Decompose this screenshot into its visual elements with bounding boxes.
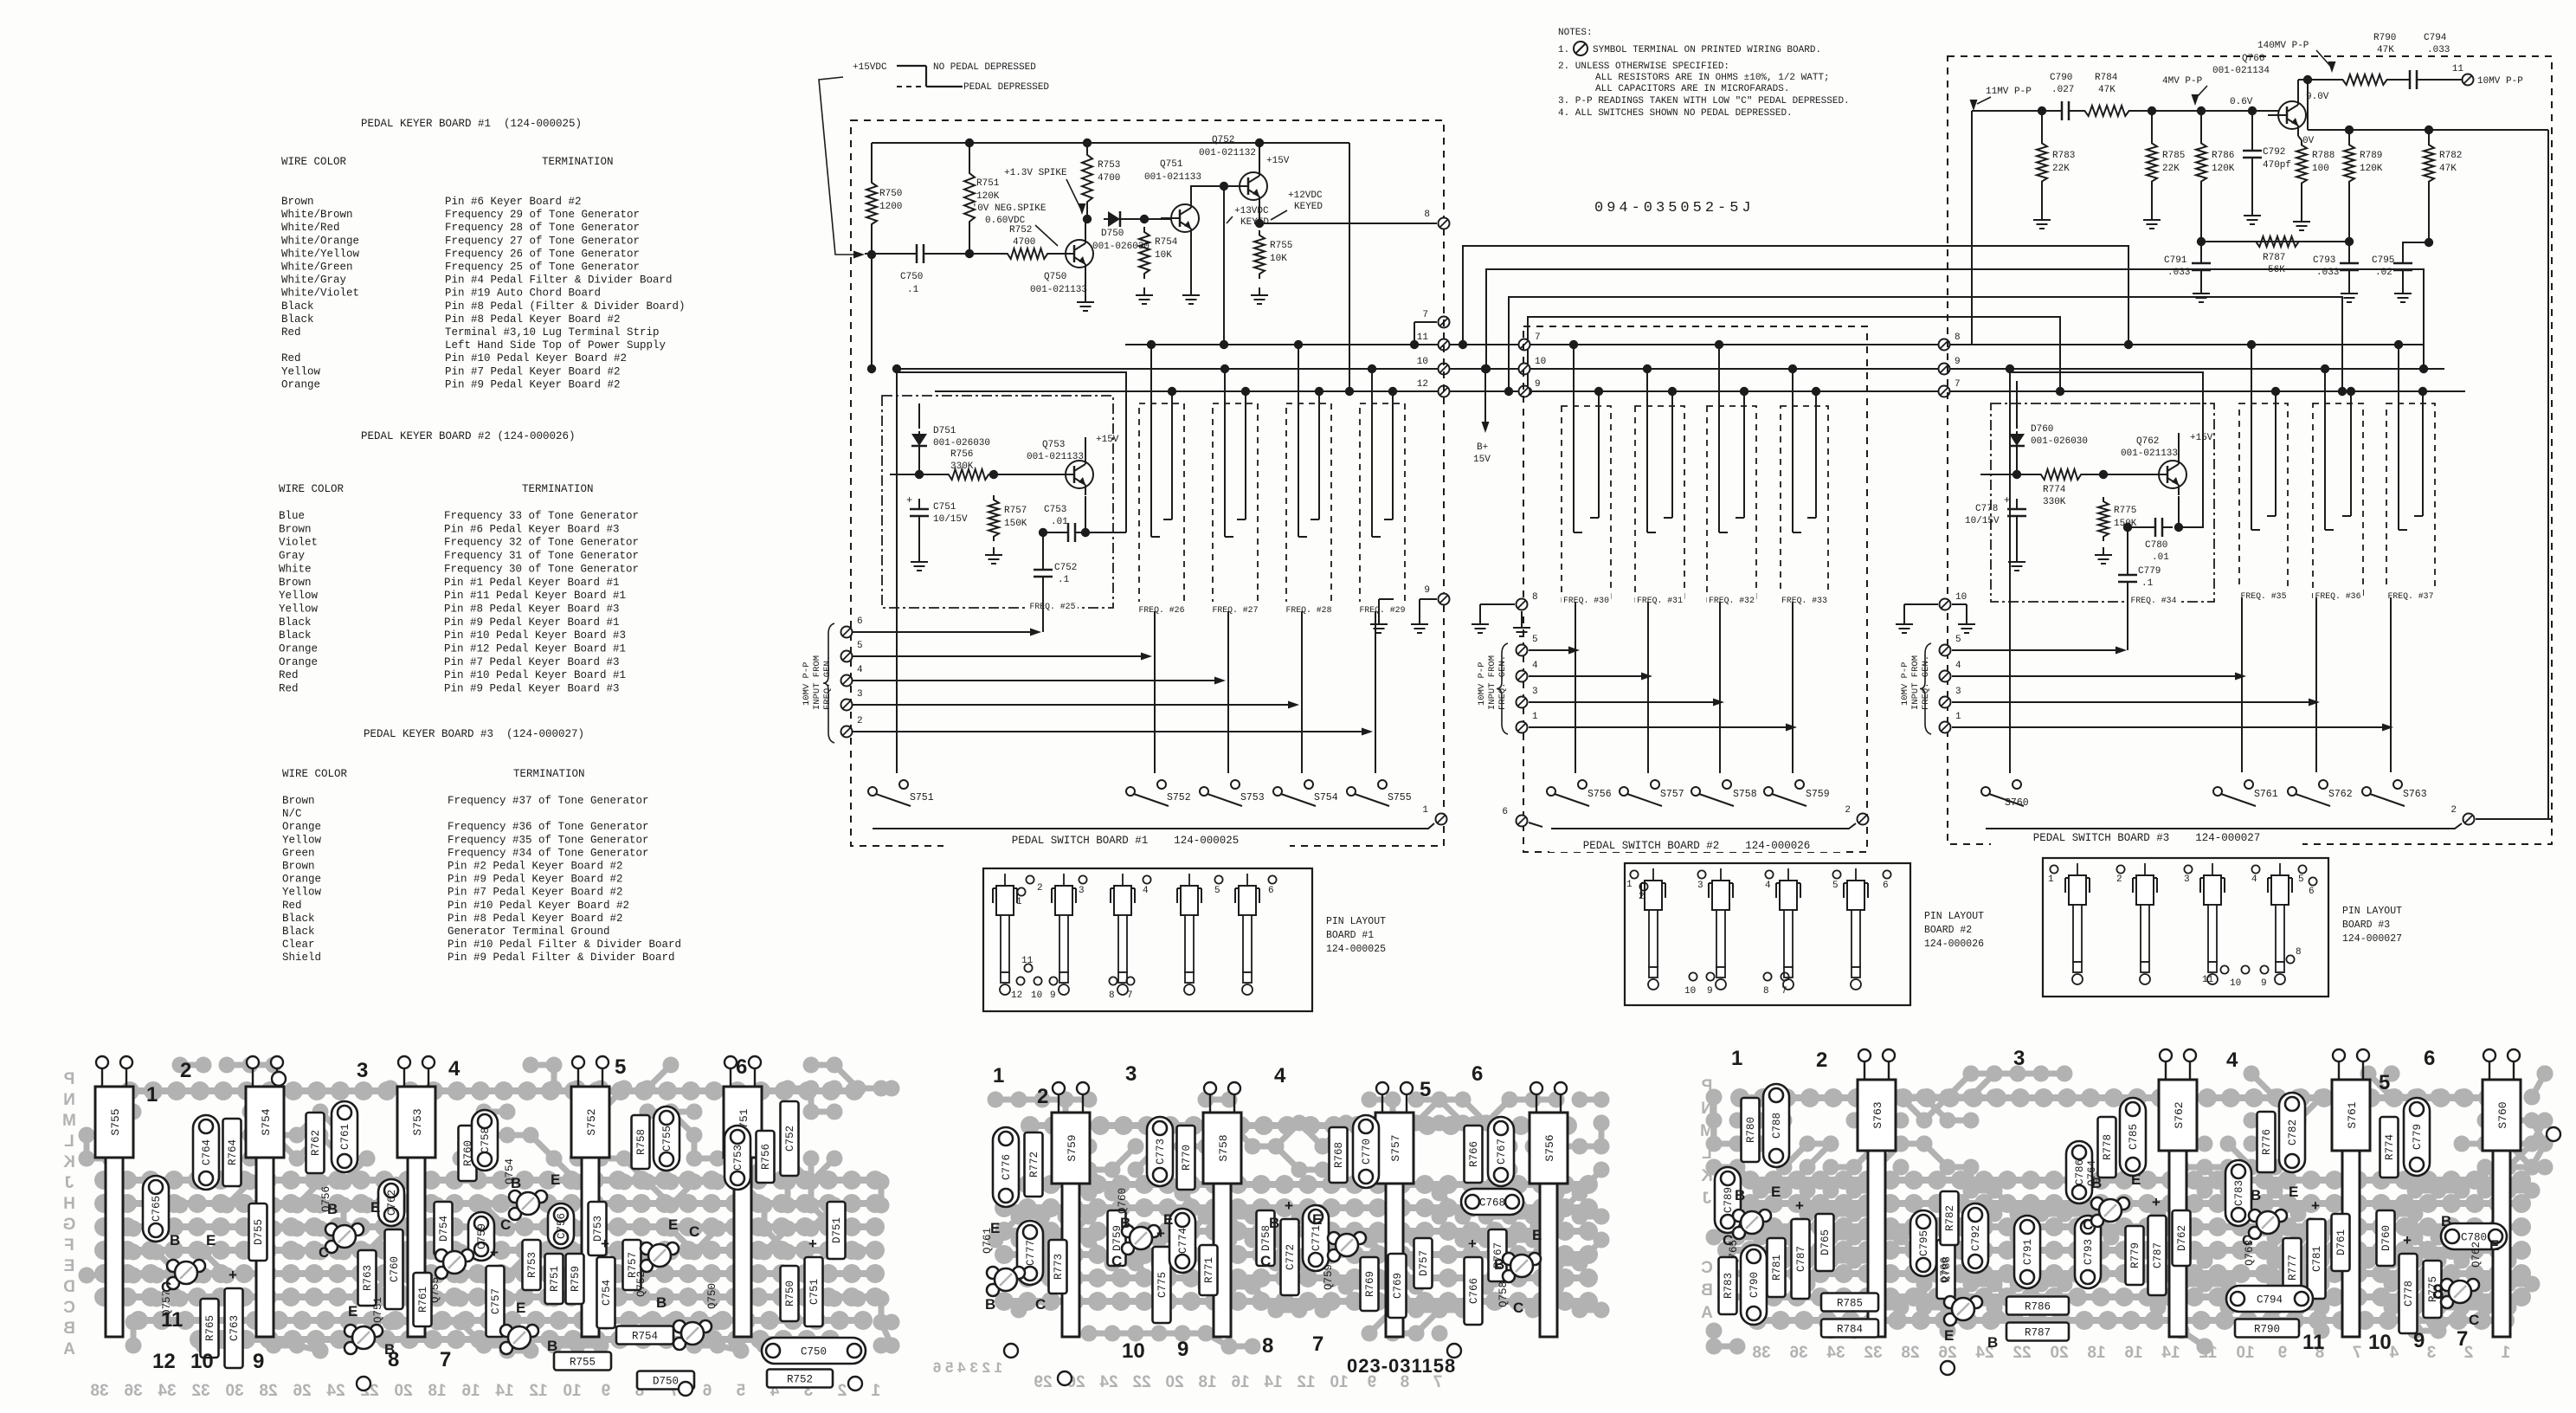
PCB1 part D753: [589, 1202, 607, 1255]
svg-text:R753: R753: [526, 1252, 538, 1278]
svg-text:C759: C759: [476, 1223, 488, 1249]
terminal 11 board1: [1439, 339, 1450, 351]
svg-text:124-000025: 124-000025: [1326, 944, 1386, 955]
svg-text:S759: S759: [1066, 1134, 1079, 1161]
svg-text:.1: .1: [1058, 575, 1070, 585]
PCB1 part R760: [459, 1126, 477, 1181]
svg-text:D: D: [63, 1278, 75, 1296]
svg-text:C793: C793: [2083, 1239, 2095, 1265]
svg-text:10: 10: [1122, 1339, 1145, 1363]
svg-text:Orange: Orange: [282, 821, 321, 833]
PCB2 open pads: [1004, 1344, 1018, 1358]
PCB1 part Q756: [325, 1223, 338, 1236]
terminal 2 board3: [2463, 814, 2475, 825]
svg-text:BOARD #2: BOARD #2: [1924, 925, 1972, 936]
svg-text:38: 38: [90, 1382, 108, 1400]
PCB1 part D750: [637, 1371, 694, 1390]
svg-text:.01: .01: [1051, 517, 1068, 527]
svg-text:10: 10: [1330, 1373, 1348, 1391]
svg-text:E: E: [668, 1216, 678, 1233]
svg-text:3: 3: [2013, 1047, 2025, 1070]
pin layout board #2: [1625, 863, 1910, 1005]
PCB1 part Q752lbl: [641, 1242, 653, 1255]
PCB3 switch S761: [2332, 1080, 2370, 1151]
svg-text:Q759: Q759: [1323, 1264, 1335, 1290]
svg-text:J: J: [65, 1174, 74, 1192]
svg-text:4MV P-P: 4MV P-P: [2162, 76, 2203, 87]
PCB3 part R788: [1937, 1240, 1955, 1299]
svg-text:10: 10: [2230, 978, 2241, 989]
PCB1 part Q750: [673, 1320, 686, 1332]
svg-text:C: C: [1111, 1253, 1122, 1269]
svg-text:K: K: [1701, 1167, 1713, 1185]
svg-text:-'0V NEG.SPIKE: -'0V NEG.SPIKE: [966, 203, 1046, 214]
svg-text:3: 3: [1955, 687, 1961, 697]
svg-text:R790: R790: [2254, 1324, 2280, 1336]
svg-text:BOARD #1: BOARD #1: [1326, 930, 1374, 941]
PCB3 part R785: [1821, 1294, 1878, 1312]
svg-text:FREQ. GEN.: FREQ. GEN.: [822, 655, 833, 710]
svg-text:5: 5: [857, 641, 863, 651]
frequency divider box FREQ. #30: [1562, 406, 1611, 602]
PCB3 part D761: [2332, 1214, 2350, 1271]
svg-text:Brown: Brown: [279, 523, 312, 535]
svg-text:10MV P-P: 10MV P-P: [1900, 662, 1910, 706]
svg-text:R751: R751: [976, 178, 1000, 189]
svg-text:Pin #10 Pedal Keyer Board #2: Pin #10 Pedal Keyer Board #2: [448, 900, 629, 912]
svg-text:R784: R784: [1837, 1324, 1863, 1336]
PCB1 part Q754: [509, 1190, 521, 1203]
svg-text:R776: R776: [2261, 1129, 2273, 1155]
switch S753: [1200, 787, 1208, 796]
terminal 11 output: [2463, 74, 2474, 86]
svg-text:.033: .033: [2427, 45, 2450, 55]
svg-text:R752: R752: [787, 1374, 813, 1386]
svg-text:Yellow: Yellow: [282, 834, 322, 846]
svg-text:R752: R752: [1009, 225, 1032, 235]
svg-text:3: 3: [1532, 687, 1538, 697]
switch S763: [2362, 787, 2371, 796]
PCB1 switch S751: [724, 1087, 762, 1158]
svg-text:6: 6: [2424, 1047, 2435, 1070]
terminal 6 board2: [1517, 816, 1528, 827]
PCB3 part C789: [1715, 1167, 1741, 1233]
svg-text:8: 8: [1955, 332, 1961, 343]
svg-text:S761: S761: [2346, 1101, 2359, 1128]
transistor Q752: [1240, 172, 1267, 200]
PCB3 part C790: [1741, 1245, 1767, 1325]
PCB3 part R784: [1821, 1319, 1878, 1338]
svg-text:Frequency #35 of Tone Generato: Frequency #35 of Tone Generator: [448, 834, 649, 846]
svg-text:Pin #4 Pedal Filter & Divider: Pin #4 Pedal Filter & Divider Board: [445, 274, 673, 287]
PCB layout board 1 copper traces: [741, 1249, 764, 1255]
svg-text:Q750: Q750: [1044, 272, 1066, 282]
svg-text:C768: C768: [1479, 1197, 1505, 1210]
svg-text:3: 3: [857, 689, 863, 700]
wire input 6 arrow: [853, 631, 1032, 633]
svg-text:Frequency 30 of Tone Generator: Frequency 30 of Tone Generator: [444, 563, 639, 575]
PCB3 part R777: [2283, 1238, 2302, 1297]
svg-text:+15V: +15V: [1096, 435, 1119, 445]
capacitor C790: [2051, 110, 2062, 112]
resistor R784: [2079, 106, 2135, 116]
svg-text:36: 36: [1789, 1344, 1807, 1362]
svg-text:R787: R787: [2025, 1327, 2051, 1339]
svg-text:10: 10: [1031, 990, 1042, 1001]
svg-text:WIRE COLOR: WIRE COLOR: [279, 483, 345, 495]
terminal 8 board1: [1439, 218, 1450, 229]
svg-text:C781: C781: [2311, 1246, 2323, 1272]
svg-text:C: C: [1260, 1253, 1271, 1269]
svg-text:C: C: [1701, 1259, 1713, 1277]
PCB2 part Q761: [987, 1267, 999, 1279]
svg-text:BOARD #3: BOARD #3: [2342, 919, 2390, 931]
svg-text:R765: R765: [204, 1315, 216, 1341]
svg-text:470pf: 470pf: [2263, 160, 2291, 171]
svg-text:2: 2: [1639, 892, 1645, 902]
svg-text:Pin #10 Pedal Keyer Board #3: Pin #10 Pedal Keyer Board #3: [444, 629, 626, 642]
freq 34 keyer dash-dot box: [1991, 403, 2214, 602]
wire bottom bus board1: [873, 823, 1434, 829]
svg-text:001-021133: 001-021133: [1144, 172, 1201, 183]
terminal 12 board1: [1439, 386, 1450, 397]
pedal switch board 2 dashed outline: [1523, 326, 1867, 852]
PCB1 part R762: [306, 1113, 325, 1173]
PCB3 mirrored ruler numbers: [1752, 1344, 1770, 1362]
terminal 1 board1: [1436, 814, 1447, 825]
svg-text:9.0V: 9.0V: [2306, 92, 2329, 102]
PCB1 part C765: [143, 1176, 169, 1242]
svg-text:Yellow: Yellow: [282, 887, 322, 899]
PCB3 part Q763: [2249, 1210, 2261, 1222]
svg-text:12: 12: [152, 1350, 176, 1373]
wire Q752 emitter node: [1259, 207, 1260, 223]
svg-text:4. ALL SWITCHES SHOWN NO PEDAL: 4. ALL SWITCHES SHOWN NO PEDAL DEPRESSED…: [1558, 108, 1793, 119]
svg-text:B: B: [63, 1319, 75, 1338]
svg-text:4: 4: [2251, 874, 2257, 885]
svg-text:R755: R755: [570, 1357, 596, 1369]
svg-text:R788: R788: [2312, 151, 2334, 161]
svg-text:22: 22: [1132, 1373, 1150, 1391]
PCB3 part R774: [2380, 1117, 2399, 1177]
svg-text:Brown: Brown: [281, 196, 314, 208]
svg-text:C765: C765: [151, 1196, 163, 1222]
svg-text:R755: R755: [1270, 241, 1292, 251]
svg-text:Generator Terminal Ground: Generator Terminal Ground: [448, 926, 610, 938]
svg-text:Pin #19 Auto Chord Board: Pin #19 Auto Chord Board: [445, 287, 601, 300]
svg-text:.01: .01: [2152, 552, 2169, 563]
svg-text:6: 6: [1883, 881, 1889, 891]
PCB2 part R772: [1025, 1132, 1043, 1197]
wire Q750 collector to D750 node: [1085, 219, 1086, 233]
PCB1 part C752: [781, 1101, 799, 1176]
svg-text:S757: S757: [1660, 789, 1684, 800]
wire freq25 output to switch: [1085, 532, 1126, 533]
switch S761: [2213, 787, 2222, 796]
svg-text:.027: .027: [2051, 85, 2074, 95]
resistor R782: [2428, 130, 2430, 140]
svg-text:8: 8: [1109, 990, 1115, 1001]
svg-text:C791: C791: [2164, 255, 2187, 266]
svg-text:Red: Red: [282, 900, 302, 912]
svg-text:2: 2: [1845, 805, 1851, 816]
terminal 10 board2: [1519, 364, 1530, 375]
svg-text:10MV P-P: 10MV P-P: [1477, 662, 1487, 706]
diode D751: [918, 403, 920, 429]
PCB1 part D751: [828, 1202, 846, 1259]
terminal 10 board1: [1439, 364, 1450, 375]
resistor R786: [2197, 106, 2206, 115]
PCB1 part R753: [523, 1240, 541, 1290]
svg-text:D757: D757: [1418, 1250, 1430, 1276]
svg-text:.02: .02: [2375, 268, 2392, 278]
svg-text:24: 24: [1099, 1373, 1118, 1391]
svg-text:2: 2: [1037, 1085, 1048, 1108]
PCB1 mirrored ruler numbers: [90, 1382, 108, 1400]
frequency divider box FREQ. #26: [1139, 403, 1184, 611]
svg-text:Yellow: Yellow: [279, 590, 319, 602]
svg-text:D760: D760: [2380, 1225, 2392, 1251]
switch S760: [1981, 787, 1990, 796]
svg-text:+: +: [490, 1244, 499, 1261]
svg-text:9: 9: [602, 1382, 611, 1400]
svg-text:Orange: Orange: [281, 378, 320, 390]
pedal plug switch: [2144, 863, 2146, 875]
resistor R788 emitter: [2298, 136, 2302, 140]
terminal 9 board1 with ground: [1439, 594, 1450, 605]
svg-text:16: 16: [461, 1382, 480, 1400]
wire 13VDC keyed feed: [1223, 186, 1225, 345]
svg-text:4700: 4700: [1098, 173, 1120, 184]
svg-text:E: E: [370, 1199, 380, 1216]
frequency divider box FREQ. #32: [1707, 406, 1756, 602]
wire feedback line: [2308, 129, 2548, 131]
ground C751: [918, 526, 920, 554]
svg-text:0.6V: 0.6V: [2230, 97, 2253, 107]
svg-text:PEDAL KEYER BOARD #1 (124-000: PEDAL KEYER BOARD #1 (124-000025): [361, 118, 582, 130]
ground Q751 emitter: [1190, 239, 1192, 287]
PCB3 switch S760: [2483, 1080, 2521, 1151]
svg-text:8: 8: [2296, 947, 2302, 958]
svg-text:R782: R782: [1944, 1205, 1956, 1231]
PCB1 open pads: [272, 1072, 286, 1086]
svg-text:330K: 330K: [950, 461, 974, 472]
svg-text:B: B: [985, 1296, 995, 1313]
svg-text:1: 1: [1422, 805, 1428, 816]
svg-text:22K: 22K: [2162, 164, 2180, 174]
svg-text:White/Yellow: White/Yellow: [281, 248, 360, 260]
svg-text:11: 11: [1021, 956, 1034, 966]
capacitor C795: [2403, 242, 2429, 255]
svg-text:Black: Black: [281, 300, 314, 313]
svg-text:R759: R759: [570, 1266, 582, 1292]
svg-text:Brown: Brown: [282, 861, 315, 873]
svg-text:2: 2: [838, 1382, 847, 1400]
PCB1 part C759: [468, 1212, 494, 1261]
svg-text:H: H: [63, 1195, 75, 1213]
svg-text:C795: C795: [1918, 1230, 1930, 1256]
svg-text:R768: R768: [1333, 1142, 1345, 1168]
svg-text:11: 11: [161, 1308, 183, 1332]
svg-text:TERMINATION: TERMINATION: [513, 768, 585, 780]
svg-text:S753: S753: [411, 1108, 424, 1135]
svg-text:C769: C769: [1392, 1273, 1404, 1299]
svg-text:PEDAL DEPRESSED: PEDAL DEPRESSED: [963, 82, 1049, 93]
svg-text:10: 10: [1955, 592, 1967, 603]
svg-text:B: B: [384, 1341, 395, 1358]
svg-text:9: 9: [1424, 585, 1430, 596]
svg-text:20: 20: [2050, 1344, 2068, 1362]
svg-text:E: E: [551, 1171, 560, 1188]
svg-text:1: 1: [2501, 1344, 2510, 1362]
svg-text:C780: C780: [2145, 540, 2167, 551]
terminal 2 board2: [1858, 814, 1869, 825]
svg-text:White/Green: White/Green: [281, 261, 353, 274]
PCB layout board 2 copper traces: [1486, 1237, 1510, 1243]
svg-text:R774: R774: [2384, 1134, 2396, 1160]
PCB2 part R773: [1049, 1240, 1067, 1294]
svg-text:S757: S757: [1389, 1134, 1402, 1161]
PCB1 switch S754: [246, 1087, 284, 1158]
svg-text:FREQ. #32: FREQ. #32: [1709, 596, 1755, 605]
svg-text:Red: Red: [281, 326, 301, 339]
PCB1 switch S755: [95, 1087, 133, 1158]
svg-text:R770: R770: [1181, 1145, 1193, 1171]
terminal 9 board3 left: [1939, 364, 1950, 375]
svg-text:S753: S753: [1240, 792, 1265, 803]
terminal 7 board1: [1414, 321, 1437, 323]
PCB2 mirrored ruler numbers: [1034, 1373, 1052, 1391]
svg-text:C770: C770: [1361, 1139, 1373, 1165]
svg-text:FREQ. GEN.: FREQ. GEN.: [1497, 655, 1508, 710]
svg-text:White/Gray: White/Gray: [281, 274, 347, 287]
svg-text:6: 6: [1268, 886, 1274, 896]
svg-text:C767: C767: [1496, 1139, 1508, 1165]
PCB1 part R761: [414, 1273, 432, 1326]
resistor R783: [2037, 139, 2047, 186]
svg-text:+: +: [906, 494, 912, 506]
PCB1 part D755: [249, 1203, 267, 1261]
PCB3 part Q765: [1733, 1210, 1745, 1222]
pedal plug switch: [1787, 868, 1789, 881]
svg-text:29: 29: [1034, 1373, 1052, 1391]
PCB2 part C775: [1153, 1247, 1171, 1323]
terminal 8 board3 left: [1939, 339, 1950, 351]
B+ 15V supply arrow: [1484, 369, 1486, 426]
svg-text:D760: D760: [2031, 424, 2053, 435]
svg-text:4: 4: [2226, 1048, 2238, 1072]
svg-text:R756: R756: [950, 449, 973, 460]
svg-text:Pin #8 Pedal Keyer Board #3: Pin #8 Pedal Keyer Board #3: [444, 603, 620, 615]
diode D750: [1104, 218, 1108, 220]
svg-text:6: 6: [1502, 807, 1508, 817]
wire b3 input 1 arrow: [1952, 726, 2382, 728]
PCB3 part Q764: [2091, 1197, 2103, 1210]
PCB3 part R787: [2006, 1323, 2069, 1341]
wire R786 bottom feedback node: [2200, 186, 2202, 242]
svg-text:15V: 15V: [1473, 455, 1491, 465]
svg-text:C795: C795: [2372, 255, 2394, 266]
svg-text:1: 1: [2048, 874, 2054, 885]
svg-text:Q758: Q758: [1497, 1281, 1510, 1307]
svg-text:Q766: Q766: [2242, 54, 2264, 64]
PCB3 part C782: [2279, 1093, 2305, 1172]
pin layout board #3: [2043, 858, 2328, 997]
svg-text:R787: R787: [2263, 253, 2285, 263]
svg-text:+1.3V SPIKE: +1.3V SPIKE: [1004, 168, 1067, 178]
svg-text:5: 5: [615, 1055, 626, 1079]
svg-text:C777: C777: [1025, 1240, 1037, 1266]
svg-text:47K: 47K: [2377, 45, 2394, 55]
svg-text:C791: C791: [2022, 1239, 2034, 1265]
svg-text:B+: B+: [1477, 442, 1488, 453]
wire bus line 10-10 y426: [897, 368, 1941, 370]
capacitor C751 electrolytic: [918, 499, 920, 509]
svg-text:3: 3: [2184, 874, 2190, 885]
svg-text:B: B: [2091, 1175, 2102, 1191]
svg-text:7: 7: [1127, 990, 1133, 1001]
PCB1 part C757: [486, 1266, 505, 1337]
resistor R750: [871, 143, 873, 177]
svg-text:4: 4: [1955, 661, 1961, 671]
svg-text:2: 2: [180, 1059, 191, 1082]
PCB2 part R768: [1330, 1127, 1348, 1183]
frequency divider box FREQ. #27: [1213, 403, 1258, 611]
svg-text:S763: S763: [2403, 789, 2427, 800]
svg-text:Orange: Orange: [279, 656, 318, 668]
svg-text:C773: C773: [1155, 1139, 1167, 1165]
svg-text:S752: S752: [585, 1108, 598, 1135]
svg-text:C753: C753: [732, 1145, 744, 1171]
switch S754: [1273, 787, 1282, 796]
svg-text:10/15V: 10/15V: [1965, 516, 2000, 526]
svg-text:Left Hand Side Top of Power Su: Left Hand Side Top of Power Supply: [445, 339, 667, 352]
svg-text:S755: S755: [109, 1108, 122, 1135]
svg-text:C789: C789: [1723, 1187, 1735, 1213]
svg-text:Pin #8 Pedal (Filter & Divider: Pin #8 Pedal (Filter & Divider Board): [445, 300, 686, 313]
svg-text:R754: R754: [632, 1331, 658, 1343]
PCB2 part Q758: [1503, 1253, 1515, 1265]
svg-text:Black: Black: [282, 913, 315, 925]
svg-text:14: 14: [2161, 1344, 2180, 1362]
svg-text:1 2 3 4 5 6: 1 2 3 4 5 6: [933, 1359, 1002, 1376]
svg-text:Q752: Q752: [1212, 135, 1234, 145]
svg-text:Clear: Clear: [282, 939, 315, 951]
PCB1 part C761: [332, 1101, 357, 1172]
PCB3 part R781: [1768, 1238, 1786, 1297]
svg-text:J: J: [1703, 1190, 1712, 1208]
svg-text:47K: 47K: [2439, 164, 2457, 174]
svg-text:Q760: Q760: [1117, 1188, 1129, 1214]
PCB3 part C795: [1910, 1210, 1936, 1276]
svg-text:C: C: [1035, 1296, 1046, 1313]
svg-text:FREQ. #37: FREQ. #37: [2388, 591, 2434, 601]
PCB1 part C750: [762, 1338, 866, 1364]
svg-text:S761: S761: [2254, 789, 2278, 800]
svg-text:E: E: [516, 1300, 525, 1316]
svg-text:Q762: Q762: [2136, 436, 2159, 447]
svg-text:C: C: [1513, 1300, 1523, 1316]
svg-text:12: 12: [1417, 379, 1428, 390]
PCB3 part C780: [2441, 1223, 2507, 1249]
svg-text:C771: C771: [1311, 1225, 1323, 1251]
svg-text:20: 20: [394, 1382, 412, 1400]
PCB1 part R752: [767, 1370, 833, 1388]
svg-text:1: 1: [993, 1064, 1004, 1087]
svg-text:Frequency #37 of Tone Generato: Frequency #37 of Tone Generator: [448, 795, 649, 807]
svg-text:8: 8: [2432, 1281, 2444, 1304]
svg-text:C756: C756: [556, 1213, 568, 1239]
